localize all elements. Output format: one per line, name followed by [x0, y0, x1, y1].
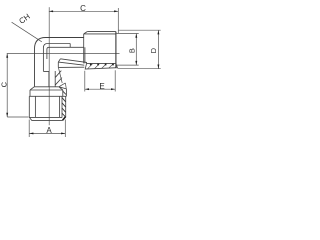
bottom nut bottom band	[29, 116, 66, 120]
arrowhead E right	[111, 88, 115, 90]
right nut top front edge	[84, 33, 116, 35]
svg-text:C: C	[0, 81, 9, 87]
horizontal arm lower bar top rear edge	[60, 59, 86, 64]
arrowhead D up	[157, 30, 159, 34]
step on horizontal arm	[69, 44, 71, 48]
vertical arm right tube edge	[54, 71, 56, 87]
svg-text:D: D	[149, 47, 158, 53]
bottom collar right chamfer	[59, 87, 67, 90]
bottom collar front top edge	[30, 89, 63, 91]
dim D: dimension line	[157, 30, 159, 68]
arrowhead B down	[135, 61, 137, 65]
right nut serration hatch	[88, 64, 118, 69]
elbow body inner fillet near edge	[43, 44, 70, 72]
bottom nut hex face line right	[59, 96, 61, 117]
right nut U1 top rear edge	[87, 31, 116, 33]
bottom nut bottom front edge	[29, 116, 62, 118]
wire centerline vertical axis	[48, 7, 50, 125]
horizontal arm lower bar bottom edge	[58, 66, 84, 68]
dim CH leader line	[12, 22, 42, 42]
bottom collar left chamfer	[30, 87, 34, 90]
dim B: dimension line	[135, 34, 137, 66]
svg-text:E: E	[99, 82, 104, 91]
right nut left face	[83, 34, 85, 64]
arrowhead C left up	[6, 54, 8, 58]
right nut serrated band outline	[85, 63, 117, 69]
svg-text:B: B	[128, 48, 137, 53]
dimension graphics	[7, 8, 161, 137]
dim C top: right extension line	[117, 8, 119, 33]
dim A: dimension line	[29, 132, 65, 134]
bottom collar sliver hatch	[63, 91, 66, 95]
dim C left: extension lines	[7, 116, 28, 118]
dim C left: dimension line	[6, 54, 8, 118]
elbow body outer profile	[35, 38, 84, 87]
svg-text:C: C	[80, 4, 86, 13]
dim C top: dimension line	[49, 10, 118, 12]
bottom nut outer right edge	[65, 96, 67, 116]
wire centerline horizontal axis	[7, 53, 120, 55]
arrowhead B up	[135, 34, 137, 38]
svg-text:A: A	[46, 126, 52, 135]
bottom nut N1 left face	[28, 96, 30, 117]
arrowhead A left	[29, 132, 33, 134]
dim D: extension lines	[118, 30, 161, 68]
horizontal arm lower bar left end	[58, 59, 60, 68]
dim E: extension lines	[85, 70, 115, 91]
right nut bottom front edge	[87, 62, 116, 64]
dim A: extension lines	[29, 120, 65, 138]
right nut tube end edge	[84, 47, 86, 63]
bottom collar right side	[63, 89, 67, 96]
bottom collar left side	[29, 90, 31, 96]
right nut right face	[115, 32, 117, 68]
step on vertical arm	[43, 71, 49, 86]
dim E: dimension line	[85, 88, 115, 90]
bottom nut bottom right dark chamfer	[63, 117, 66, 121]
bottom nut hex face line left	[34, 96, 36, 117]
bottom collar rear corner diagonal	[59, 83, 66, 89]
arrowhead C left down	[6, 113, 8, 117]
bottom collar bottom edge	[29, 95, 66, 97]
dim B: extension lines	[117, 34, 139, 66]
bottom collar rear top edge	[34, 86, 59, 88]
right nut top-left chamfer	[84, 32, 88, 34]
arrowhead C top right	[114, 10, 118, 12]
right nut serration teeth	[91, 64, 113, 66]
vertical arm right sliver hatch	[55, 71, 62, 85]
vertical arm right silhouette	[58, 67, 62, 83]
horizontal arm lower bar front top edge	[58, 62, 84, 65]
arrowhead E left	[85, 88, 89, 90]
arrowhead D down	[157, 65, 159, 69]
bottom nut side hatch	[62, 98, 66, 117]
bottom nut front right edge	[61, 96, 63, 117]
arrowhead A right	[61, 132, 65, 134]
elbow body inner fillet far edge	[47, 47, 84, 59]
arrowhead C top left	[49, 10, 53, 12]
